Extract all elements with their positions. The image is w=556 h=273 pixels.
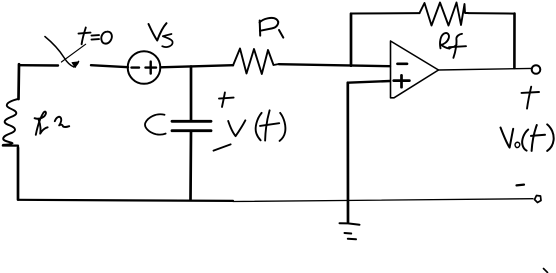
label R2: [35, 112, 70, 135]
wire left vertical (top): [17, 64, 20, 99]
resistor R2 zigzag: [3, 99, 19, 145]
resistor R1 zigzag: [233, 49, 279, 75]
ground symbol: [340, 223, 360, 239]
capacitor plus polarity mark: [219, 92, 234, 107]
output minus polarity mark: [517, 184, 525, 187]
label R1: [260, 18, 284, 38]
op-amp non-inverting input marker: [394, 75, 410, 87]
output positive terminal: [532, 65, 541, 74]
capacitor top lead wire: [190, 67, 193, 121]
label v(t): [228, 110, 285, 140]
op-amp output wire: [439, 68, 532, 70]
stray pen mark bottom-right corner: [544, 269, 548, 273]
wire non-inverting input: [348, 81, 390, 83]
bottom wire (ground rail): [18, 199, 533, 202]
wire R1 to op-amp inverting input: [279, 64, 390, 66]
negative output terminal: [535, 196, 542, 203]
output plus polarity mark: [522, 87, 540, 109]
wire R2 bottom to left vertical: [3, 146, 18, 149]
feedback top wire left: [351, 12, 420, 14]
switch arm: [61, 44, 85, 62]
label C: [145, 114, 166, 134]
wire left vertical (bottom): [17, 148, 20, 200]
switch closing arc with arrowhead: [45, 37, 79, 68]
resistor Rf zigzag: [420, 3, 469, 26]
feedback right vertical wire: [513, 14, 516, 68]
capacitor C plates: [172, 121, 211, 130]
feedback top wire right: [468, 12, 515, 15]
label Vs: [149, 23, 173, 47]
ground vertical wire: [346, 83, 349, 222]
wire switch to source: [91, 65, 128, 67]
feedback tap vertical wire: [350, 14, 353, 66]
label Rf: [440, 33, 466, 58]
wire top-left horizontal segment: [19, 64, 58, 67]
label Vo(t): [501, 124, 554, 150]
op-amp inverting input marker: [398, 62, 408, 65]
label t=0: [79, 28, 112, 45]
op-amp U1 triangle: [391, 41, 439, 98]
voltage source plus sign: [146, 62, 157, 74]
wire source to R1: [161, 65, 234, 67]
capacitor bottom lead wire: [189, 132, 192, 201]
voltage source minus sign: [132, 66, 140, 68]
capacitor minus polarity mark: [214, 144, 231, 150]
voltage source VS circle: [128, 51, 161, 84]
